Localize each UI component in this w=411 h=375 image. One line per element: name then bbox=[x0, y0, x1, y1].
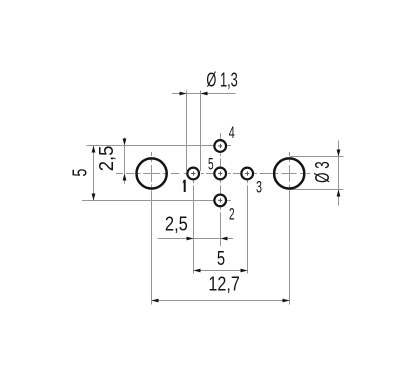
extension line right circle top tangent bbox=[290, 156, 344, 158]
pin 4 hole Ø1.3 bbox=[214, 140, 226, 152]
dimension 5 horizontal line bbox=[194, 270, 248, 272]
wire pin 2 horizontal extension bbox=[82, 200, 214, 202]
wire pin 1 vertical extension bbox=[193, 180, 195, 183]
extension line right circle bottom tangent bbox=[290, 189, 344, 191]
wire pin 4 horizontal extension bbox=[87, 145, 214, 147]
svg-text:2,5: 2,5 bbox=[165, 213, 188, 235]
dimension 1.3 line bbox=[172, 93, 236, 95]
svg-text:5: 5 bbox=[69, 169, 91, 177]
svg-text:2,5: 2,5 bbox=[96, 146, 118, 172]
svg-text:3: 3 bbox=[256, 178, 262, 197]
svg-text:4: 4 bbox=[229, 123, 235, 142]
svg-text:Ø 3: Ø 3 bbox=[312, 161, 334, 183]
svg-text:2: 2 bbox=[229, 205, 235, 224]
dimension 3 vertical line bbox=[338, 141, 340, 206]
svg-text:5: 5 bbox=[217, 248, 225, 270]
wire pin column vertical centerline bbox=[220, 133, 222, 139]
wire left circle vertical centerline bbox=[151, 152, 153, 156]
pin number 1 bbox=[182, 180, 185, 192]
dimension 12.7 line bbox=[152, 300, 290, 302]
node pin 3 center cross bbox=[245, 173, 249, 175]
mounting hole left Ø3 bbox=[137, 158, 167, 188]
pin 1 hole Ø1.3 bbox=[187, 168, 199, 180]
node pin 5 center cross bbox=[218, 173, 222, 175]
pin 3 hole Ø1.3 bbox=[241, 168, 253, 180]
node pin 4 center cross bbox=[218, 145, 222, 147]
pin 2 hole Ø1.3 bbox=[214, 195, 226, 207]
svg-text:Ø 1,3: Ø 1,3 bbox=[206, 70, 237, 92]
svg-text:5: 5 bbox=[208, 154, 214, 173]
wire main horizontal centerline bbox=[116, 173, 123, 175]
node pin 2 center cross bbox=[218, 199, 222, 201]
node pin 1 center cross bbox=[191, 173, 195, 175]
mounting hole right Ø3 bbox=[274, 158, 304, 188]
svg-text:12,7: 12,7 bbox=[208, 274, 239, 296]
wire pin 3 vertical extension bbox=[247, 180, 249, 183]
extension line pin1 right tangent bbox=[200, 91, 202, 172]
extension line pin1 left tangent bbox=[186, 91, 188, 172]
dimension 5 vertical line bbox=[93, 146, 95, 201]
dimension 2.5 horizontal line bbox=[158, 238, 221, 240]
wire right circle vertical centerline bbox=[289, 152, 291, 156]
pin 5 hole Ø1.3 bbox=[214, 168, 226, 180]
dimension 2.5 vertical line bbox=[124, 138, 126, 184]
